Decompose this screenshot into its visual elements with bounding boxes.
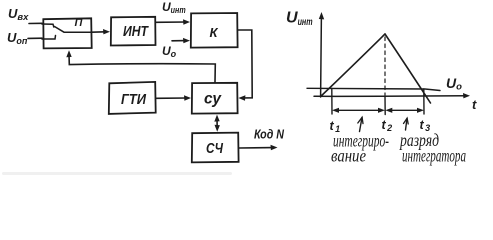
label t — [472, 97, 477, 112]
svg-text:П: П — [75, 17, 84, 29]
text интегрирование — [331, 131, 389, 166]
wire К output down to СУ — [238, 30, 252, 98]
dashed line t2 — [384, 37, 386, 95]
arrowhead Uо into К — [183, 38, 190, 43]
triangle falling edge — [385, 34, 431, 103]
block К — [191, 13, 238, 48]
arrowhead t axis — [463, 93, 470, 98]
svg-text:вание: вание — [331, 146, 366, 166]
label Uинт axis — [286, 10, 313, 29]
label Uвх — [8, 6, 29, 23]
wire СЧ output — [239, 147, 273, 149]
block СЧ — [192, 133, 239, 163]
arrowhead Код N — [271, 145, 278, 150]
label Код N — [254, 127, 284, 142]
axis Y — [320, 16, 323, 97]
label t3 — [420, 118, 432, 133]
arrowhead up at СУ bottom — [214, 115, 219, 122]
svg-text:су: су — [204, 91, 222, 108]
arrowhead into К — [183, 19, 190, 24]
axis t — [314, 95, 466, 98]
block ИНТ — [111, 17, 156, 46]
wire ГТИ to СУ — [157, 97, 188, 99]
arrowhead down at СЧ top — [215, 125, 220, 132]
label Uо graph — [446, 75, 462, 93]
tick t1 — [331, 89, 333, 115]
switch contact Uоп — [42, 36, 56, 40]
wire Uвх input — [29, 22, 42, 24]
arrow up mark 1 — [360, 118, 363, 132]
wire П to ИНТ — [92, 31, 105, 33]
arrowhead into ИНТ — [103, 29, 110, 34]
label t1 — [330, 119, 342, 134]
svg-text:Код N: Код N — [254, 127, 284, 142]
switch wiper — [55, 27, 93, 33]
arrowhead into СУ left — [184, 95, 191, 100]
arrowhead Y axis — [319, 12, 324, 19]
text разряд интегратора — [398, 130, 466, 166]
arrowhead into СУ right — [238, 95, 245, 100]
faint scan smudge — [2, 172, 232, 175]
svg-text:К: К — [210, 25, 219, 40]
line Uо level — [307, 88, 440, 90]
dimension arrow t1-t2 — [336, 109, 381, 111]
svg-text:СЧ: СЧ — [206, 141, 224, 157]
svg-text:ИНТ: ИНТ — [123, 23, 149, 40]
wire СУ-СЧ bidirectional — [216, 118, 218, 129]
wire Uоп input — [28, 37, 42, 39]
wire Uо into К — [172, 40, 186, 42]
label Uо — [162, 44, 177, 59]
triangle rising edge — [321, 34, 385, 97]
svg-text:интегратора: интегратора — [402, 146, 466, 166]
arrowhead feedback into П bottom — [66, 50, 71, 57]
switch contact Uвх — [42, 24, 54, 27]
tick t3 — [423, 89, 425, 114]
block П — [43, 18, 91, 48]
svg-text:ГТИ: ГТИ — [121, 91, 147, 108]
label t2 — [382, 118, 394, 133]
label Uинт — [162, 0, 186, 15]
label Uоп — [7, 30, 28, 47]
wire feedback СУ to П — [69, 54, 215, 82]
block СУ — [192, 83, 238, 114]
wire ИНТ to К — [156, 21, 186, 23]
tick t2 — [384, 96, 386, 115]
svg-text:t: t — [472, 97, 477, 112]
block ГТИ — [109, 82, 156, 114]
arrow up mark 2 — [406, 119, 408, 131]
dimension arrow t2-t3 — [389, 109, 420, 111]
